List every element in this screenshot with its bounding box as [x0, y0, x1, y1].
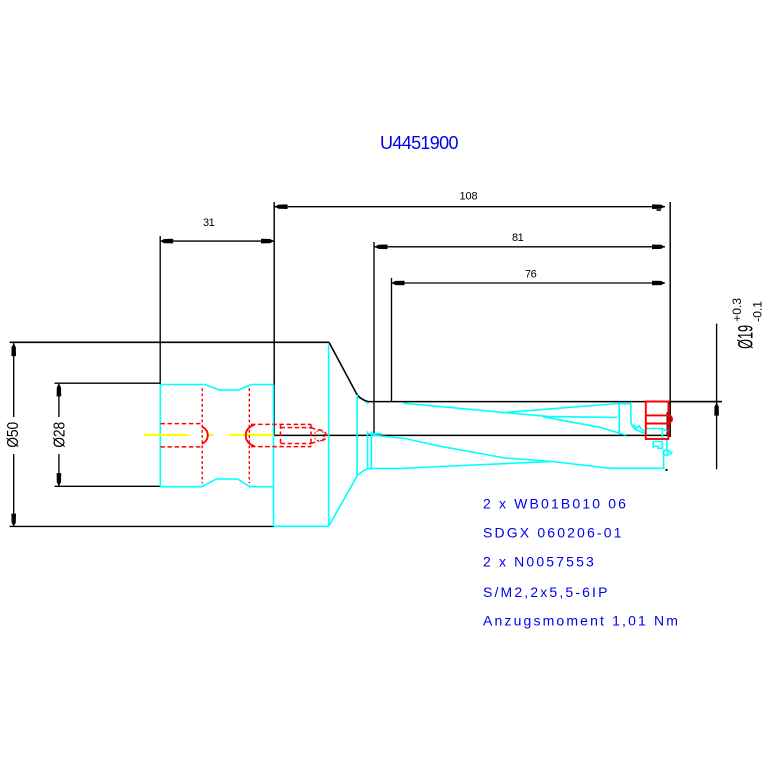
CYAN geometry	[160, 345, 672, 527]
svg-text:Ø19: Ø19	[733, 325, 757, 349]
flute spiral top T3	[543, 417, 626, 435]
top connector	[619, 403, 631, 405]
dimension 76	[392, 278, 666, 401]
svg-text:S/M2,2x5,5-6IP: S/M2,2x5,5-6IP	[483, 584, 610, 600]
svg-text:-0.1: -0.1	[751, 301, 765, 322]
shank top with neck dip	[160, 385, 273, 390]
inner screw body	[281, 427, 312, 429]
flute runout verticals	[367, 431, 369, 468]
svg-text:U4451900: U4451900	[380, 133, 459, 153]
svg-text:Anzugsmoment 1,01 Nm: Anzugsmoment 1,01 Nm	[483, 613, 680, 629]
small rect below	[664, 450, 668, 455]
screw tip	[311, 428, 318, 430]
RED insert at tip	[646, 402, 672, 440]
svg-text:108: 108	[460, 191, 478, 203]
svg-text:SDGX 060206-01: SDGX 060206-01	[483, 525, 624, 541]
svg-text:+0.3: +0.3	[730, 298, 744, 322]
dimension 81	[374, 242, 665, 435]
tip bottom vertical	[666, 439, 668, 450]
dimension 31	[160, 236, 274, 384]
svg-text:Ø50: Ø50	[4, 422, 22, 448]
svg-text:2 x WB01B010 06: 2 x WB01B010 06	[483, 496, 628, 512]
dimension D19 +0.3 -0.1	[670, 324, 722, 470]
bottom pocket	[653, 442, 662, 449]
screw tip dotted circle	[314, 431, 324, 441]
dimension 108	[275, 206, 666, 208]
tip vertical V1	[618, 404, 620, 435]
svg-text:31: 31	[203, 217, 215, 229]
body bottom line	[369, 467, 404, 469]
flute vertical at taper	[356, 395, 358, 476]
svg-text:2 x N0057553: 2 x N0057553	[483, 553, 596, 569]
taper (chamfer flange to body)	[329, 342, 368, 401]
flange left face (black, upper half)	[273, 202, 275, 435]
bottom right blue text block	[483, 496, 680, 629]
lower vertical to bottom line	[663, 452, 665, 469]
YELLOW centerline	[144, 434, 274, 436]
bottom chamfer	[329, 468, 369, 526]
flute spiral top T2	[501, 404, 620, 413]
shank bottom with neck hump	[160, 479, 273, 487]
dimension D50	[10, 343, 274, 526]
right extension line (drill tip)	[669, 202, 671, 437]
shank right / flange left face cyan	[273, 385, 275, 527]
flange bottom	[274, 525, 329, 527]
flute spiral bottom B2	[402, 462, 552, 469]
right tick	[669, 451, 672, 455]
dimension D28	[55, 383, 161, 486]
tip vertical V2 with curve	[631, 404, 646, 433]
cyan tick at taper junction	[366, 402, 369, 405]
tool outline black: flange top + extension	[10, 341, 329, 343]
shank left face	[159, 384, 161, 486]
black dot at tip bottom	[666, 469, 668, 471]
insert area cyan: horizontal inside	[646, 428, 663, 430]
section center line	[274, 434, 670, 436]
svg-text:81: 81	[512, 232, 524, 244]
mid screw outer	[251, 423, 311, 425]
flute spiral top T1	[403, 403, 617, 417]
wiggle left of insert	[634, 425, 645, 432]
svg-text:Ø28: Ø28	[51, 422, 69, 448]
RED hidden detail: left hole	[160, 388, 326, 483]
flange right face	[328, 345, 330, 527]
body top line + extension to D19 dim	[368, 401, 722, 403]
flute spiral bottom B1	[373, 435, 611, 468]
cross hole verticals	[201, 388, 203, 483]
svg-text:76: 76	[525, 269, 537, 281]
inner tip vertical	[666, 412, 668, 435]
